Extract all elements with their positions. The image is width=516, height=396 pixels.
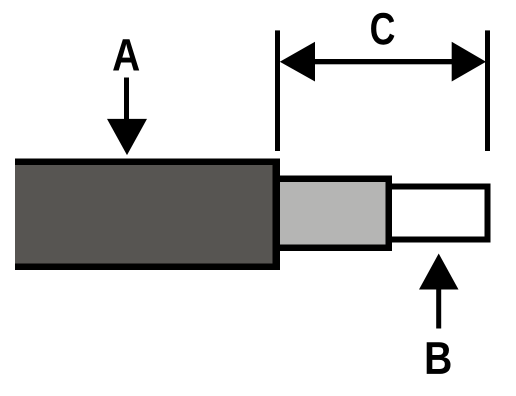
dimension arrow C (double-headed)	[280, 42, 486, 82]
arrow B (pointing up at conductor)	[419, 254, 459, 329]
insulation (light gray rectangle)	[272, 176, 392, 252]
arrow A (pointing down at jacket)	[107, 78, 147, 156]
conductor (white rectangle, labelled B)	[386, 184, 491, 243]
dimension extension line right	[485, 30, 490, 151]
label C	[371, 13, 394, 45]
label A	[113, 39, 139, 70]
label B	[427, 342, 451, 374]
dimension extension line left	[275, 30, 280, 151]
cable jacket (dark gray rectangle, labelled A)	[15, 159, 280, 271]
